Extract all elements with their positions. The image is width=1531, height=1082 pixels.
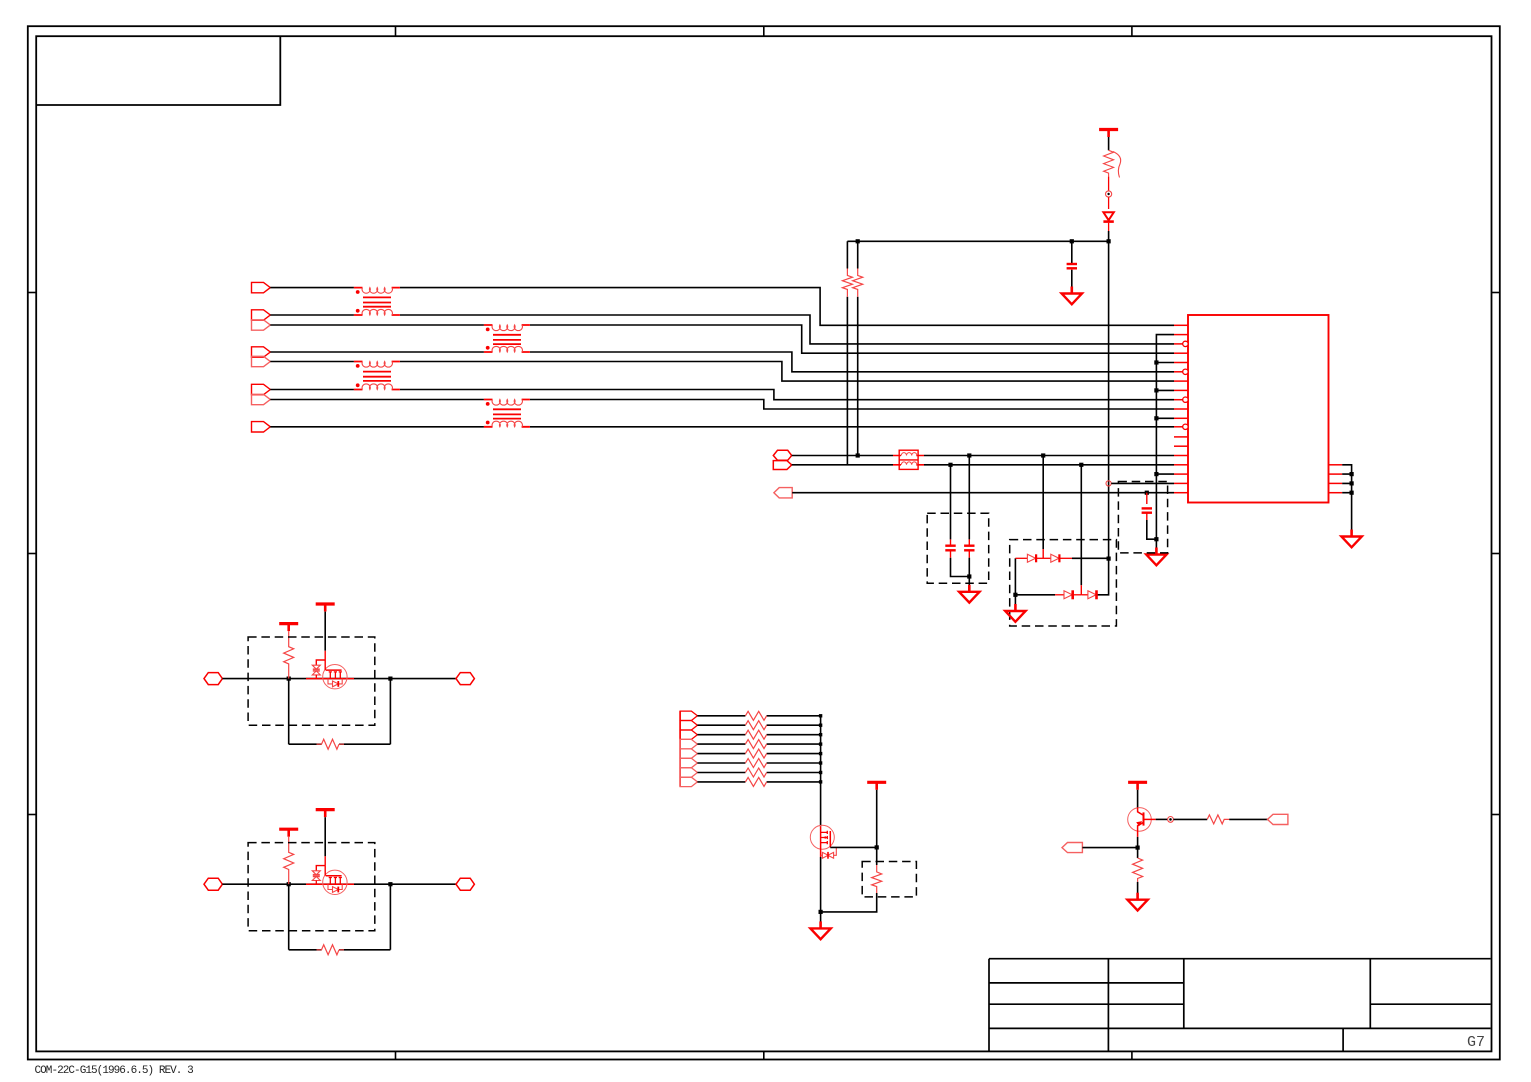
wire diode to rail: [1108, 223, 1110, 231]
wire esd drop B red: [1080, 585, 1082, 595]
wire C3 top lead: [968, 456, 970, 540]
node circle Q4: [1168, 817, 1174, 823]
junction rb4: [819, 742, 822, 745]
zone tick right 1: [1492, 292, 1500, 294]
connector P7: [252, 394, 271, 404]
wire w3: [270, 325, 1174, 353]
wire rb4: [697, 743, 820, 745]
wire esd drop B: [1080, 465, 1082, 585]
U1 pin 3: [1174, 341, 1188, 346]
resistor R load: [872, 865, 882, 893]
shield box SH1 (caps): [927, 513, 989, 583]
capacitor C3: [964, 539, 974, 557]
power bar small: [279, 829, 298, 837]
zone tick right 3: [1492, 814, 1500, 816]
resistor pullup: [284, 837, 294, 885]
junction right: [388, 677, 392, 681]
ground esd: [1005, 604, 1025, 622]
zener gate clamp: [312, 665, 320, 678]
resistor RB6: [745, 759, 766, 768]
zone tick left 1: [28, 292, 36, 294]
resistor RB3: [745, 730, 766, 739]
esd box DB1: [1010, 540, 1117, 626]
zone tick right 2: [1492, 553, 1500, 555]
ground C1: [1062, 287, 1082, 305]
connector P6: [252, 384, 271, 394]
junction gate res: [287, 677, 291, 681]
wire choke in A: [792, 455, 893, 457]
junction rail C: [1070, 239, 1074, 243]
connector PB3: [680, 730, 697, 739]
net hexagon left: [204, 673, 222, 685]
U1 right pin D: [1329, 492, 1343, 494]
net hexagon right: [456, 878, 474, 890]
diode D1: [1103, 212, 1113, 221]
U1 pin 13: [1174, 436, 1188, 438]
zone tick left 2: [28, 553, 36, 555]
U1 pin 17: [1174, 473, 1188, 475]
connector bank spine: [679, 711, 681, 787]
U1 pin 19: [1174, 492, 1188, 494]
U1 pin 12: [1174, 424, 1188, 429]
wire resistor to P11: [1229, 818, 1267, 820]
junction w19 cap: [1145, 491, 1149, 495]
junction rb8: [819, 780, 822, 783]
node circle A: [1106, 191, 1112, 197]
wire C2 bottom: [951, 558, 970, 577]
U1 pin 8: [1174, 389, 1188, 391]
capacitor C4: [1142, 508, 1152, 520]
title box top-left: [36, 36, 280, 105]
wire rb2: [697, 724, 820, 726]
wire rb8: [697, 781, 820, 783]
wire w19: [792, 492, 1174, 494]
resistor RB1: [745, 711, 766, 720]
junction on bus pin17: [1154, 472, 1158, 476]
resistor RB2: [745, 721, 766, 730]
wire rb5: [697, 753, 820, 755]
wire w8: [270, 426, 1174, 428]
wire feedback loop: [289, 679, 391, 745]
wire drain: [324, 612, 326, 651]
resistor RA: [842, 269, 852, 297]
wire rb3: [697, 734, 820, 736]
cap box SH2: [1118, 482, 1167, 553]
zone tick top 2: [763, 26, 765, 36]
resistor RB4: [745, 740, 766, 749]
U1 pin 11: [1174, 417, 1188, 419]
junction source rail: [819, 910, 823, 914]
junction on bus pin11: [1154, 416, 1158, 420]
wire Q3 source: [820, 857, 822, 912]
transistor Q4 npn: [1128, 808, 1156, 837]
U1 right pin C: [1329, 482, 1343, 484]
wire feedback loop: [289, 884, 391, 950]
wire C1 to ground: [1071, 270, 1073, 287]
choke FL1: [893, 450, 924, 469]
ground for bus: [1146, 548, 1166, 566]
transformer T4: [484, 400, 530, 427]
junction rb1: [819, 714, 822, 717]
U1 pin 15: [1174, 455, 1188, 457]
guard box dashed: [248, 843, 375, 931]
junction rb3: [819, 733, 822, 736]
wire channel: [222, 883, 456, 885]
wire drain red: [316, 856, 325, 871]
U1 pin 6: [1174, 369, 1188, 374]
wire thermistor to node: [1108, 177, 1110, 191]
zone tick bottom 3: [1131, 1051, 1133, 1059]
wire w7: [270, 400, 1174, 410]
connector P1: [252, 282, 271, 292]
wire channel red part: [306, 678, 354, 680]
junction B esd: [1079, 463, 1083, 467]
thermistor RT1: [1104, 150, 1121, 177]
wire emitter res to ground: [1137, 882, 1139, 896]
connector P5: [252, 356, 271, 366]
junction right pin B: [1350, 472, 1354, 476]
wire esd drop A: [1042, 456, 1044, 550]
junction right: [388, 882, 392, 886]
ground Q3: [810, 921, 830, 939]
wire esd row2: [1015, 559, 1108, 595]
wire vertical main drop: [1108, 231, 1110, 559]
U1 right pin B: [1329, 473, 1343, 475]
wire channel: [222, 678, 456, 680]
resistor R base: [1207, 815, 1229, 824]
U1 pin 4: [1174, 352, 1188, 354]
junction rail R: [856, 239, 860, 243]
U1 pin 2: [1174, 334, 1188, 336]
wire Q4 collector: [1137, 790, 1139, 808]
zone tick top 3: [1131, 26, 1133, 36]
U1 pin 9: [1174, 397, 1188, 402]
U1 pin 10: [1174, 408, 1188, 410]
transistor Q3 mosfet: [810, 825, 836, 858]
wire choke out B: [924, 464, 1174, 466]
junction C2C3: [967, 574, 971, 578]
node circle B on drop: [1106, 481, 1111, 486]
resistor pullup: [284, 631, 294, 679]
wire esd row1 left: [1015, 558, 1108, 595]
zone tick left 3: [28, 814, 36, 816]
svg-text:COM-22C-G15(1996.6.5) REV. 3: COM-22C-G15(1996.6.5) REV. 3: [35, 1065, 194, 1077]
wire choke in B: [792, 464, 893, 466]
diode D4: [1055, 590, 1081, 599]
U1 right pin A: [1329, 464, 1343, 466]
ground right of U1: [1341, 530, 1361, 548]
connector P3: [252, 320, 271, 330]
junction right pin C: [1350, 481, 1354, 485]
junction gate res: [287, 882, 291, 886]
junction right pin D: [1350, 491, 1354, 495]
diode D5: [1081, 590, 1096, 599]
U1 pin 16: [1174, 464, 1188, 466]
wire esd drop A red: [1042, 549, 1044, 558]
wire C2 top lead: [950, 465, 952, 540]
wire rb6: [697, 762, 820, 764]
wire base to resistor: [1173, 818, 1207, 820]
zone tick top 1: [395, 26, 397, 36]
junction rb7: [819, 771, 822, 774]
connector P10 arrow: [774, 488, 792, 498]
ground caps: [959, 585, 979, 603]
connector PB6: [680, 758, 697, 768]
wire emitter down: [1137, 837, 1139, 858]
wire w4: [270, 352, 1174, 372]
U1 pin 5: [1174, 362, 1188, 364]
power bar small: [279, 624, 298, 632]
junction C4 bus: [1154, 537, 1158, 541]
wire choke out A: [924, 455, 1174, 457]
wire circle B to pin18: [1111, 482, 1174, 484]
wire Q4 base: [1156, 818, 1168, 820]
zener gate clamp: [312, 871, 320, 884]
transformer T3: [354, 362, 400, 390]
wire C4 top lead: [1146, 493, 1148, 504]
wire bank bus: [820, 716, 822, 826]
wire w6: [270, 390, 1174, 400]
wire pwr to thermistor: [1108, 137, 1110, 150]
wire load bottom: [821, 893, 877, 912]
junction rb5: [819, 752, 822, 755]
svg-text:G7: G7: [1467, 1034, 1485, 1051]
junction A esd: [1041, 453, 1045, 457]
power bar Q3: [867, 782, 886, 790]
U1 pin 7: [1174, 380, 1188, 382]
wire node to diode: [1108, 197, 1110, 209]
connector P11 arrow: [1268, 814, 1288, 824]
wire rb7: [697, 772, 820, 774]
transistor Q mosfet: [323, 660, 347, 689]
zone tick bottom 2: [763, 1051, 765, 1059]
connector PB5: [680, 749, 697, 758]
right pins wire: [1342, 465, 1351, 530]
wire C3 bottom: [968, 558, 970, 592]
power bar VCC top: [1099, 130, 1118, 138]
net hexagon right: [456, 673, 474, 685]
connector P9 pair arrow: [773, 461, 791, 470]
connector PB2: [680, 721, 697, 731]
ground Q4: [1127, 893, 1147, 911]
resistor RB5: [745, 749, 766, 758]
power bar drain: [316, 810, 335, 818]
transformer T1: [354, 288, 400, 315]
capacitor C2: [945, 539, 955, 557]
connector P12 arrow: [1062, 843, 1082, 853]
wire w5: [270, 362, 1174, 382]
junction esd row1: [1107, 557, 1111, 561]
power bar drain: [316, 604, 335, 612]
power bar Q4: [1128, 782, 1147, 790]
zone tick bottom 1: [395, 1051, 397, 1059]
resistor feedback: [317, 945, 345, 955]
wire C4 bottom: [1147, 520, 1157, 539]
wire drain red: [316, 651, 325, 666]
wire Q3 load top: [876, 790, 878, 865]
junction rail D: [1107, 239, 1111, 243]
guard box dashed: [248, 637, 375, 725]
op-amp U1 body: [1188, 315, 1329, 503]
wire rb1: [697, 715, 820, 717]
connector PB8: [680, 777, 697, 786]
resistor RB7: [745, 768, 766, 777]
title block: [989, 959, 1491, 1052]
transformer T2: [484, 325, 530, 352]
connector PB7: [680, 768, 697, 777]
junction emitter: [1136, 846, 1140, 850]
connector P8: [252, 422, 271, 432]
resistor R emitter: [1133, 858, 1143, 882]
wire w2: [270, 315, 1174, 344]
connector PB4: [680, 739, 697, 749]
wire to ground Q3: [820, 912, 822, 922]
diode D2: [1015, 554, 1050, 562]
load box dashed: [862, 862, 916, 897]
wire cap C1 lead: [1071, 241, 1073, 263]
connector P2: [252, 310, 271, 320]
junction on bus pin5: [1154, 360, 1158, 364]
junction A cap: [967, 453, 971, 457]
junction Q3 gate: [875, 845, 879, 849]
connector P9 pair hexagon: [773, 450, 791, 460]
resistor RB8: [745, 777, 766, 786]
net hexagon left: [204, 878, 222, 890]
wire Q3 gate: [830, 846, 876, 848]
wire top rail: [847, 240, 1108, 242]
junction w857 on A: [856, 453, 860, 457]
resistor RB: [853, 269, 863, 297]
junction on bus pin8: [1154, 388, 1158, 392]
junction rb2: [819, 724, 822, 727]
junction B cap: [948, 463, 952, 467]
junction esd left: [1013, 593, 1017, 597]
wire w1: [270, 288, 1174, 326]
connector PB1: [680, 711, 697, 720]
wire drain: [324, 817, 326, 856]
wire left pulldown A: [846, 241, 848, 464]
resistor feedback: [317, 739, 345, 749]
U1 pin 1: [1174, 324, 1188, 326]
wire esd to ground: [1014, 595, 1016, 605]
diode D3: [1051, 554, 1072, 562]
U1 pin 18: [1174, 482, 1188, 484]
ground bus wire: [1156, 335, 1174, 548]
transistor Q mosfet: [323, 866, 347, 895]
wire P12 to emitter: [1082, 847, 1137, 849]
capacitor C1: [1067, 264, 1077, 273]
wire channel red part: [306, 883, 354, 885]
junction rb6: [819, 761, 822, 764]
U1 pin 14: [1174, 445, 1188, 447]
wire right pulldown B: [857, 241, 859, 455]
connector P4: [252, 347, 271, 357]
